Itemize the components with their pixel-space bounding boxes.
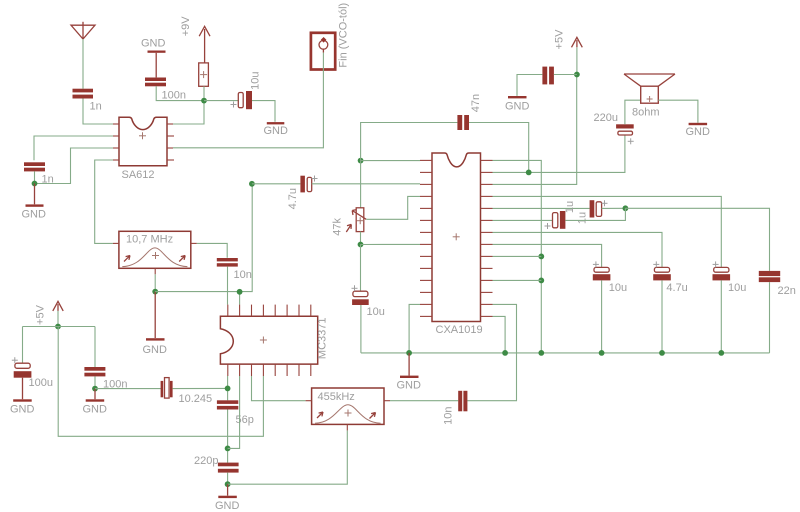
wire SA612 L2 to 1n input cap	[34, 136, 113, 160]
svg-text:10u: 10u	[250, 72, 262, 90]
wire junction to SA612 L3	[35, 148, 114, 184]
wire node to 455kHz bottom	[228, 430, 348, 484]
svg-text:10,7 MHz: 10,7 MHz	[126, 234, 173, 246]
crystal 10.245	[161, 378, 173, 399]
svg-text:56p: 56p	[236, 414, 254, 426]
svg-text:455kHz: 455kHz	[318, 391, 355, 403]
ground GND (220p)	[218, 484, 237, 498]
svg-text:100n: 100n	[162, 89, 186, 101]
capacitor 1n (input lower)	[24, 162, 45, 171]
capacitor 100u	[14, 363, 32, 378]
wire MC pin1 down	[227, 376, 229, 400]
pins MC3371 top	[228, 305, 311, 317]
capacitor 100n (5V top)	[542, 67, 553, 85]
svg-text:10u: 10u	[609, 282, 627, 294]
power +5V (top)	[572, 37, 583, 47]
capacitor 10u (bus 2)	[713, 267, 731, 280]
junction +5V top node	[574, 72, 580, 78]
junction 1n node	[32, 181, 38, 187]
wire CXA R14 to bus	[493, 316, 506, 353]
capacitor 1u (A)	[590, 200, 602, 217]
wire node to crystal	[95, 388, 161, 390]
wire 22n to bus end	[769, 282, 771, 353]
antenna	[71, 22, 95, 39]
wire junction to CXA L8	[361, 243, 421, 245]
wire +5V stem	[576, 47, 578, 74]
junction pot bottom	[358, 242, 364, 248]
svg-text:8ohm: 8ohm	[632, 107, 660, 119]
wire 220u to speaker	[625, 100, 641, 124]
svg-text:CXA1019: CXA1019	[436, 324, 483, 336]
wire CXA R1 to vertical rail	[493, 160, 542, 353]
ground GND (100u)	[13, 378, 32, 402]
wire 10u to bus	[601, 280, 603, 353]
svg-text:10.245: 10.245	[179, 393, 213, 405]
svg-text:10u: 10u	[367, 306, 385, 318]
svg-text:10n: 10n	[443, 407, 455, 425]
capacitor 10n (IF coupling)	[217, 258, 238, 267]
wire pot bottom to junction	[360, 232, 362, 245]
svg-text:SA612: SA612	[122, 169, 155, 181]
ground GND (speaker)	[689, 123, 708, 125]
filter 455kHz	[306, 388, 390, 430]
wire +5V down to MC3371 pin4	[58, 327, 263, 437]
svg-text:Fin (VCO-tól): Fin (VCO-tól)	[338, 3, 350, 68]
wire MC pin3 to 455kHz	[252, 376, 306, 401]
wire Fin to SA612 pin R3	[173, 53, 323, 148]
svg-text:220p: 220p	[194, 455, 218, 467]
ground GND (bus)	[400, 353, 419, 378]
ground GND (10u)	[267, 122, 285, 124]
svg-text:GND: GND	[141, 37, 166, 49]
svg-text:+9V: +9V	[180, 16, 192, 37]
wire ground bus to MC pin2 and 4.7u node	[155, 184, 252, 292]
wire cap to GND	[517, 75, 542, 96]
junction 47n node	[526, 170, 532, 176]
wire node to 4.7u	[252, 183, 301, 185]
wire CXA L13 to bus GND	[409, 304, 420, 353]
wire CXA R5 to 1u	[493, 207, 590, 209]
junction 220p ground node	[225, 481, 231, 487]
pins SA612 left	[113, 124, 119, 160]
wire CXA R7 to 4.7u	[493, 232, 663, 267]
wire 1n to junction	[34, 171, 36, 183]
ground GND (top, above 100n)	[148, 51, 166, 78]
ic CXA1019	[432, 153, 481, 322]
wire antenna to C1	[82, 39, 84, 89]
svg-text:22n: 22n	[778, 285, 796, 297]
wire +5V stem	[57, 311, 59, 327]
power +5V (bottom left)	[53, 301, 63, 311]
svg-text:+5V: +5V	[35, 304, 47, 325]
pins CXA1019 right	[481, 160, 493, 316]
svg-text:4.7u: 4.7u	[287, 188, 299, 209]
svg-text:GND: GND	[264, 125, 289, 137]
junction bus 10u	[599, 350, 605, 356]
junction pin2 node	[225, 446, 231, 452]
junction bus R14	[502, 350, 508, 356]
wire 10u to GND	[252, 101, 275, 122]
pins MC3371 bottom	[228, 364, 311, 376]
wire 10u 2 to bus	[720, 280, 722, 353]
wire node up to 47n	[361, 123, 458, 161]
capacitor 1n (antenna)	[73, 89, 94, 99]
svg-text:1n: 1n	[90, 100, 102, 112]
pins CXA1019 left	[420, 160, 432, 316]
junction pin1 node	[225, 386, 231, 392]
junction bus 4.7u	[659, 350, 665, 356]
svg-text:+5V: +5V	[554, 29, 566, 50]
potentiometer 47k	[346, 208, 366, 232]
wire node to CXA L1	[361, 160, 420, 162]
junction bus GND	[406, 350, 412, 356]
wire 455k out to 10n	[390, 400, 458, 402]
wire CXA R11	[493, 279, 542, 281]
wire node to SA612 pin R1	[173, 101, 204, 124]
wire pot wiper to CXA L4	[366, 196, 420, 219]
capacitor 220p	[218, 463, 239, 473]
svg-text:GND: GND	[22, 208, 47, 220]
wire CXA R3 to +5V	[493, 75, 577, 185]
capacitor 47n	[457, 115, 469, 130]
svg-text:47n: 47n	[470, 94, 482, 112]
svg-text:GND: GND	[505, 100, 530, 112]
wire to 100u	[22, 327, 24, 364]
capacitor 4.7u (coupling)	[300, 176, 311, 193]
wire 100n to +9V node	[156, 86, 204, 100]
junction 1u node	[623, 205, 629, 211]
svg-text:GND: GND	[215, 500, 240, 512]
wire to 100n	[94, 327, 96, 368]
speaker 8ohm	[624, 74, 675, 103]
capacitor 10n (455k out)	[458, 391, 467, 412]
svg-text:1u: 1u	[577, 212, 589, 224]
junction +5V node	[55, 324, 61, 330]
pins SA612 right	[167, 124, 174, 160]
wire CXA R9	[493, 255, 542, 257]
wire crystal to MC pin1 node	[173, 387, 228, 389]
ic MC3371	[220, 316, 317, 364]
svg-text:10n: 10n	[234, 269, 252, 281]
wire filter bottom to GND junction	[154, 274, 156, 291]
svg-text:100u: 100u	[29, 377, 53, 389]
wire 10u to ground bus	[360, 305, 362, 353]
junction filter ground node	[152, 289, 158, 295]
wire junction to 10u	[360, 245, 362, 292]
ground GND (100n)	[86, 389, 105, 402]
capacitor 10u (pot node)	[352, 291, 369, 305]
capacitor 10u (bus 1)	[593, 267, 611, 280]
wire SA612 L4 to 10.7MHz filter	[95, 160, 113, 243]
connector Fin (VCO)	[311, 33, 335, 70]
junction rail R9	[538, 254, 544, 260]
svg-text:220u: 220u	[594, 112, 618, 124]
ground GND (1n node)	[26, 184, 44, 207]
wire CXA R2 to speaker cap	[493, 135, 625, 172]
wire 4.7u to bus	[661, 280, 663, 353]
junction node 9V	[201, 98, 207, 104]
capacitor 100n (top)	[145, 78, 166, 87]
junction crystal left node	[92, 386, 98, 392]
wire 56p down	[227, 410, 229, 463]
resistor (9V dropper)	[199, 63, 209, 86]
wire CXA R13 to 10n	[467, 304, 516, 400]
wire speaker to GND	[658, 100, 698, 123]
junction rail R11	[538, 278, 544, 284]
capacitor 220u (speaker)	[616, 124, 634, 135]
junction bus 10u 2	[718, 350, 724, 356]
svg-text:GND: GND	[10, 403, 35, 415]
junction pin2 tap	[237, 289, 243, 295]
wire 220p down	[227, 473, 229, 485]
wire CXA R4 to 10u	[493, 196, 722, 267]
wire +5V node horizontal	[23, 326, 96, 328]
svg-text:GND: GND	[397, 379, 422, 391]
wire 100n to crystal node	[94, 376, 96, 388]
capacitor 10u (9V decoupling)	[238, 91, 252, 109]
capacitor 56p	[217, 400, 238, 409]
wire CXA R8 to 10u	[493, 244, 602, 267]
ground GND (filter)	[146, 292, 165, 341]
wire junction to MC pin2	[228, 376, 240, 448]
svg-text:GND: GND	[143, 344, 168, 356]
wire C1 to SA612 pin1	[83, 99, 113, 125]
wire 10n to MC3371 pin1	[227, 267, 229, 305]
wire 47n to CXA R2 node	[469, 123, 529, 173]
wire filter out to 10n	[197, 243, 227, 257]
svg-text:10u: 10u	[728, 282, 746, 294]
wire ground bus	[361, 352, 770, 354]
wire 4.7u to CXA L3	[312, 183, 420, 185]
wire resistor to node	[203, 86, 205, 100]
capacitor 100n (5V)	[84, 367, 105, 376]
junction CXA L1 node	[358, 158, 364, 164]
capacitor 1u (B)	[553, 211, 566, 229]
wire node down to pot	[360, 161, 362, 208]
wire drop to MC3371 pin2	[239, 292, 241, 305]
capacitor 4.7u (bus)	[653, 267, 671, 280]
wire node to 10u	[204, 100, 238, 102]
op-amp IC SA612	[119, 117, 167, 166]
svg-text:GND: GND	[83, 403, 108, 415]
power +9V	[199, 26, 210, 63]
wire junction to 22n	[625, 208, 769, 271]
wire CXA R6 to 1u B	[493, 219, 553, 221]
svg-text:4.7u: 4.7u	[666, 282, 687, 294]
svg-text:47k: 47k	[332, 218, 344, 236]
filter 10,7 MHz	[113, 231, 197, 274]
wire 1u B to junction	[565, 208, 625, 220]
junction 4.7u left node	[249, 181, 255, 187]
wire 1u A to junction	[602, 207, 626, 209]
svg-text:1u: 1u	[564, 201, 576, 213]
wire cap to +5V node	[554, 74, 577, 76]
svg-text:GND: GND	[686, 126, 711, 138]
junction bus rail	[538, 350, 544, 356]
capacitor 22n	[759, 271, 780, 282]
svg-text:MC3371: MC3371	[317, 318, 329, 360]
ground GND (5V top)	[508, 96, 527, 98]
